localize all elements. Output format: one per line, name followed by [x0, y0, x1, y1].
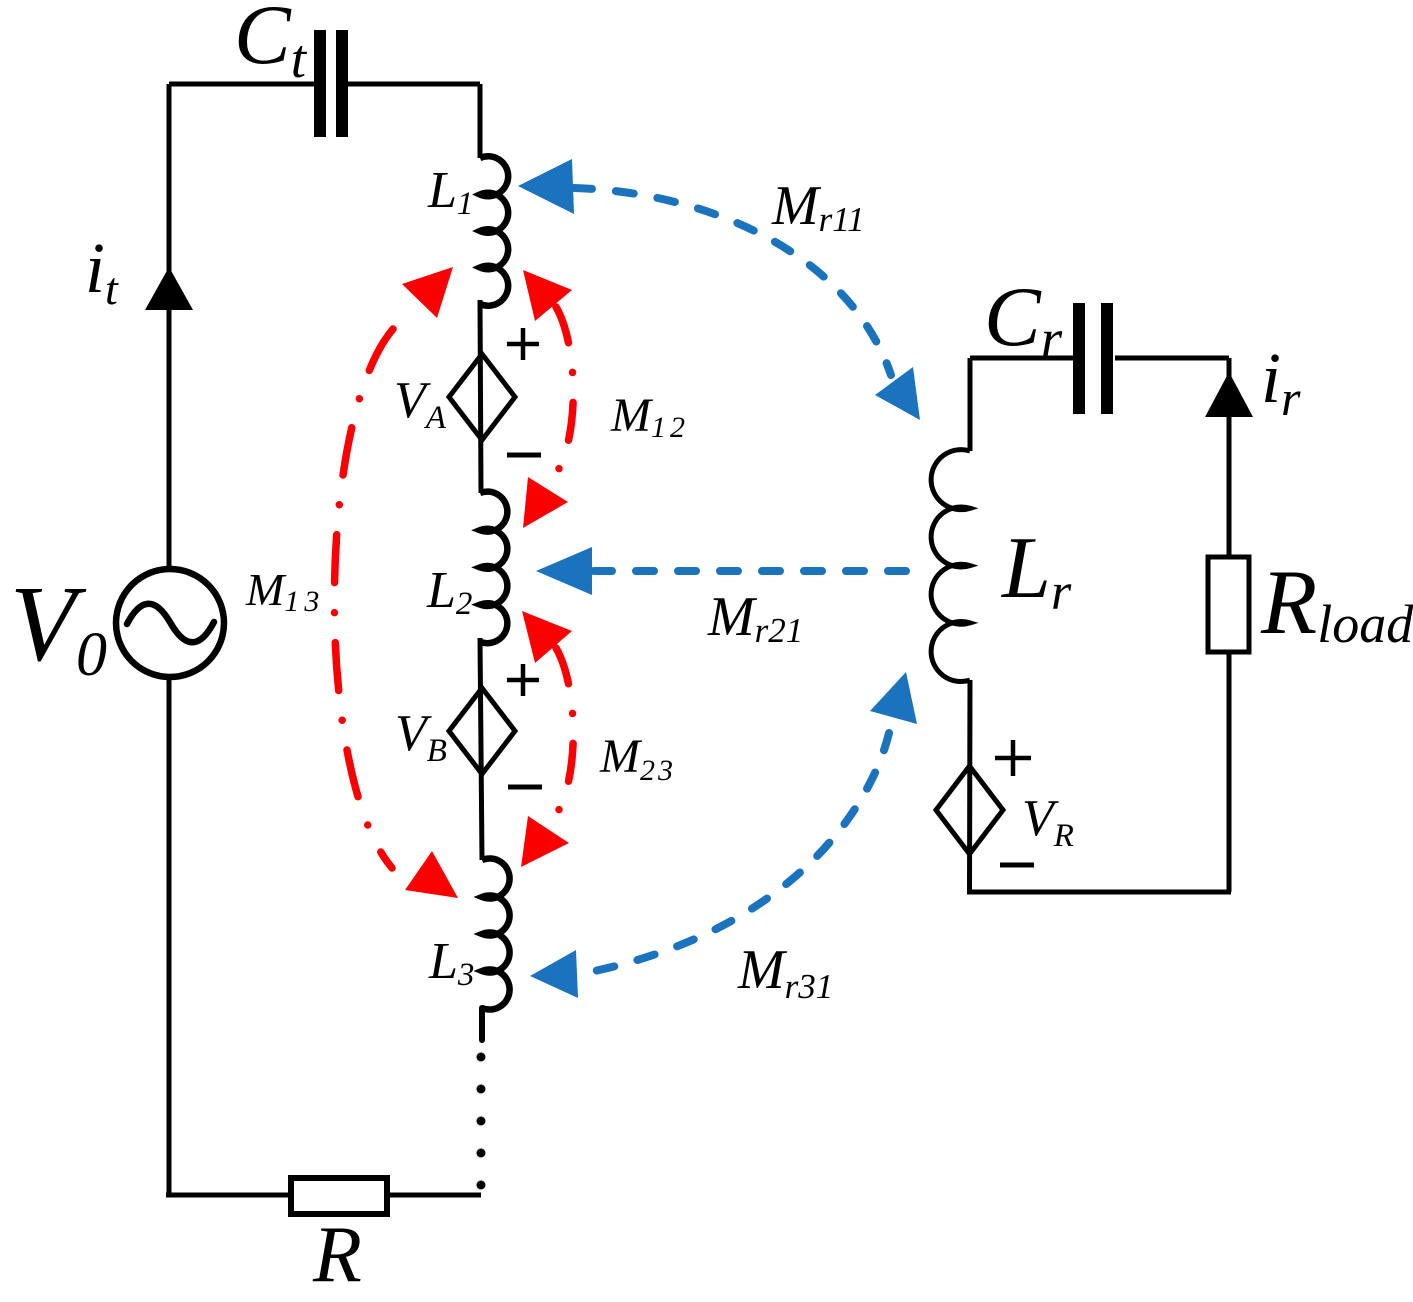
mutual arc Mr11 (blue dashed): [574, 188, 891, 375]
inductor Lr: [931, 450, 970, 682]
label VB plus: [507, 664, 539, 696]
wire: right vertical of left loop top: [478, 84, 483, 158]
wire: L2 to VB to L3: [480, 638, 482, 860]
wire: bottom horizontal left: [166, 1193, 291, 1198]
wire: Lr to VR to bottom: [967, 680, 973, 892]
dotted continuation: [477, 1053, 486, 1190]
Mr21 arrowhead: [536, 547, 592, 595]
dependent source VR: [936, 766, 1003, 854]
dependent source VA: [449, 354, 515, 440]
wire: left loop top horizontal: [169, 82, 480, 87]
Mr31 arrowhead top: [870, 672, 917, 724]
wire: right loop bottom horizontal: [967, 890, 1231, 895]
M23 arrowhead bottom: [521, 816, 569, 867]
svg-text:R: R: [312, 1211, 362, 1299]
wire: right loop top horizontal: [970, 356, 1229, 361]
M13 arrowhead bottom: [405, 851, 458, 898]
resistor R: [291, 1178, 387, 1214]
M12 arrowhead bottom: [523, 477, 568, 528]
resistor Rload: [1208, 557, 1249, 652]
wire: left vertical upper (V0 top to corner): [167, 84, 172, 568]
wire: left vertical lower: [167, 678, 172, 1195]
label VR minus: [1000, 863, 1034, 868]
source V0: [116, 569, 224, 677]
label VA minus: [507, 453, 541, 458]
inductor L1: [480, 156, 508, 306]
M23 arrowhead top: [522, 611, 572, 663]
Mr31 arrowhead bottom: [530, 950, 578, 998]
mutual arrow Mr21 (blue dashed): [594, 567, 911, 575]
wire: right loop left vertical top: [968, 358, 973, 451]
label VB minus: [508, 785, 542, 790]
M12 arrowhead top: [523, 270, 572, 321]
capacitor Cr: [1073, 303, 1113, 414]
mutual arc M12 (red dash-dot): [556, 307, 573, 474]
M13 arrowhead top: [402, 267, 453, 318]
label VR plus: [995, 740, 1031, 776]
Mr11 arrowhead left: [518, 159, 574, 214]
current arrow i_r: [1205, 372, 1253, 417]
Mr11 arrowhead right: [875, 367, 920, 420]
dependent source VB: [449, 688, 515, 774]
mutual arc Mr31 (blue dashed): [590, 733, 889, 972]
current arrow i_t: [145, 267, 193, 310]
inductor L2: [480, 492, 507, 644]
mutual arc M13 (red dash-dot): [334, 329, 393, 868]
label VA plus: [507, 328, 539, 360]
wire: L1 to VA to L2: [480, 300, 481, 493]
mutual arc M23 (red dash-dot): [556, 648, 573, 815]
wire: right loop right vertical: [1227, 358, 1232, 892]
wire: bottom horizontal right: [387, 1193, 481, 1198]
wire: L3 tail: [479, 1008, 485, 1040]
capacitor Ct: [314, 30, 348, 137]
inductor L3: [482, 859, 510, 1010]
